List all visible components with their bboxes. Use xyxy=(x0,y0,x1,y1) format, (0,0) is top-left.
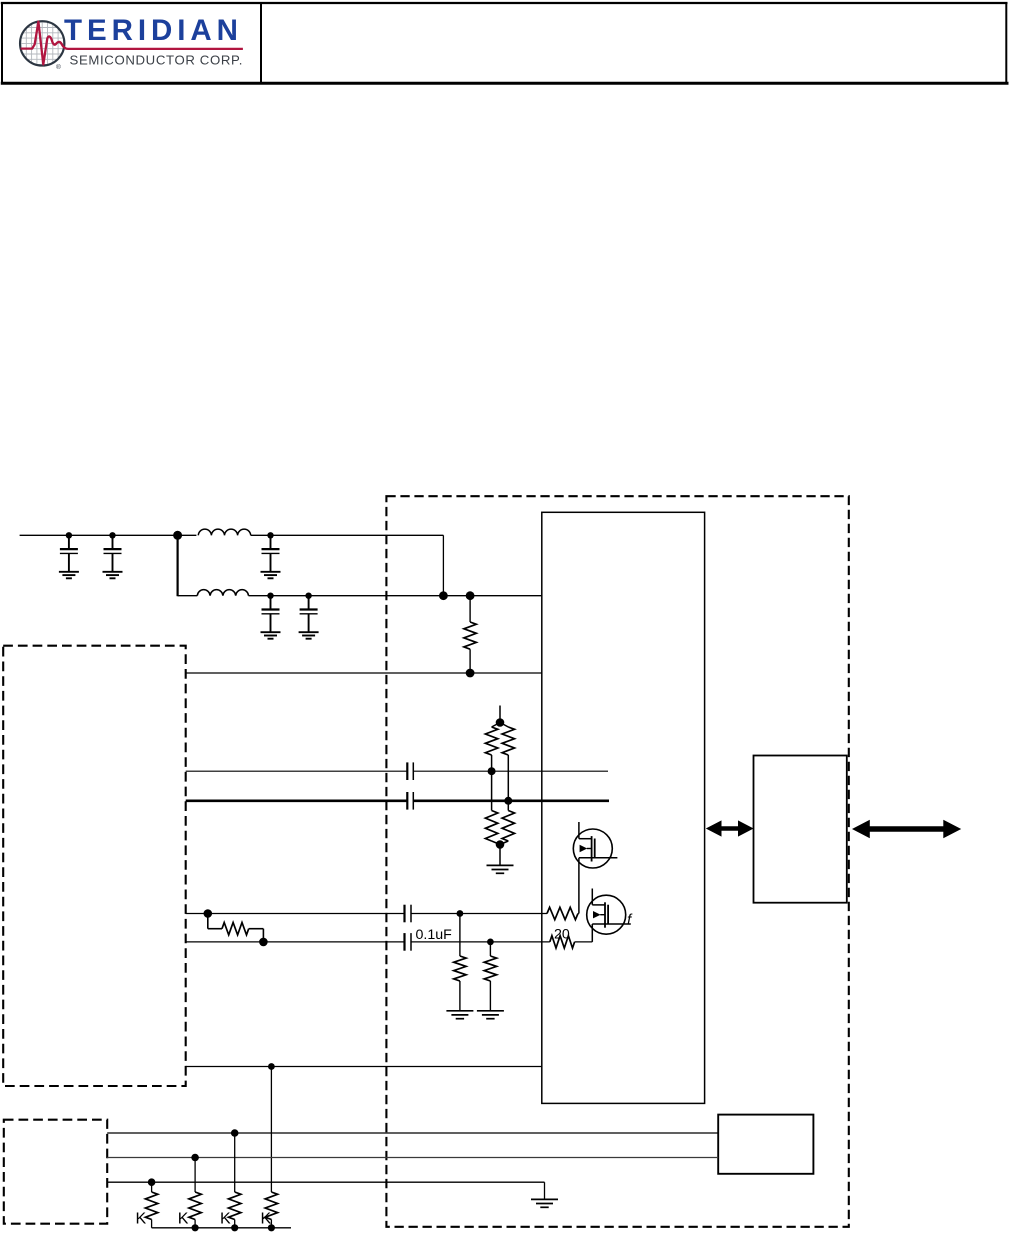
node: R3 on wire VA xyxy=(504,797,512,805)
wire: comm line 1 xyxy=(107,1132,718,1134)
dashed block: 71M6513 area xyxy=(386,496,848,1227)
stub: divider bottom to ground xyxy=(499,845,501,866)
wire: V3P3 row into IC xyxy=(249,595,542,597)
capacitor C3 xyxy=(262,532,280,572)
wire: second row to L2 xyxy=(178,595,198,597)
svg-text:f: f xyxy=(627,912,633,929)
wire VB with series capacitor C9 (0.1uF) xyxy=(186,933,550,951)
header divider xyxy=(260,2,262,83)
wire IA with series capacitor C6 xyxy=(186,762,608,780)
wire VA (bold) with series capacitor C7 xyxy=(186,792,609,810)
IC U1 body xyxy=(542,512,705,1103)
arrow: IC to EEPROM bus xyxy=(706,820,754,836)
ground of divider xyxy=(487,865,514,873)
node: C8 output xyxy=(457,910,464,917)
wire: Q1 source down to IB wire xyxy=(578,858,580,914)
resistor R8 (IB to ground) xyxy=(454,914,466,1011)
inductor L2 xyxy=(197,590,248,596)
transistor Q2 (MOSFET) xyxy=(587,895,631,934)
resistor R6 on wire IB xyxy=(547,907,578,919)
svg-text:0.1uF: 0.1uF xyxy=(416,927,453,943)
node: R2 on wire IA xyxy=(488,767,496,775)
block: bottom connector box xyxy=(718,1115,813,1174)
resistor R4 (lower-left of divider) xyxy=(485,771,500,844)
wire: Q2 rail down to VB wire xyxy=(591,924,593,942)
node: common 2 xyxy=(192,1224,199,1231)
node: R bottom junction xyxy=(466,669,475,678)
node: divider top xyxy=(496,718,505,727)
node: common 4 xyxy=(268,1224,275,1231)
ground of C1 xyxy=(59,572,79,579)
wire: resistor commons xyxy=(152,1227,291,1229)
wire: Q2 drain stub xyxy=(591,889,593,905)
svg-text:TERIDIAN: TERIDIAN xyxy=(64,14,240,47)
resistor RK2 (K) xyxy=(189,1192,201,1228)
dashed block: sensor area (left) xyxy=(3,646,186,1086)
resistor R2 (upper-left of divider) xyxy=(485,723,500,772)
wire: comm line 3 to ground xyxy=(107,1182,544,1199)
resistor RK4 (K) xyxy=(265,1192,277,1228)
wire: neutral return xyxy=(186,1066,542,1068)
wire: tap 1 drop xyxy=(151,1182,153,1192)
resistor R5 (lower-right of divider) xyxy=(500,801,515,845)
ground of R9 xyxy=(477,1011,504,1019)
node: divider bottom xyxy=(496,840,505,849)
node: pull-up tap 3 xyxy=(231,1129,239,1137)
block: EEPROM / right box xyxy=(754,756,847,903)
svg-text:K: K xyxy=(136,1211,147,1228)
ground of C2 xyxy=(103,572,123,579)
wire: tap 3 drop xyxy=(234,1133,236,1192)
ground of C5 xyxy=(299,632,319,639)
wire: VBAT row xyxy=(186,672,542,674)
wire: R10 to Q2 xyxy=(575,941,593,943)
wire: comm line 2 xyxy=(107,1157,718,1159)
wire IB with series capacitor C8 xyxy=(186,905,547,923)
capacitor C1 xyxy=(60,532,78,572)
logo circle with grid xyxy=(20,20,66,67)
node: line split xyxy=(173,531,182,540)
node: bend junction xyxy=(439,591,448,600)
dashed block: small bottom-left xyxy=(4,1120,107,1224)
node: neutral tap xyxy=(268,1063,275,1070)
wire: tap 2 drop xyxy=(194,1158,196,1193)
wire: neutral tap drop xyxy=(270,1067,272,1193)
resistor R1 (V3P3 to VBAT) xyxy=(464,596,476,673)
capacitor C2 xyxy=(104,532,122,572)
resistor R3 (upper-right of divider) xyxy=(500,723,515,801)
ground of R8 xyxy=(446,1011,473,1019)
ground of C3 xyxy=(261,572,281,579)
capacitor C4 xyxy=(262,593,280,633)
capacitor C5 xyxy=(300,593,318,633)
wire: line input xyxy=(20,534,197,536)
logo ECG waveform xyxy=(21,22,243,65)
svg-text:SEMICONDUCTOR CORP.: SEMICONDUCTOR CORP. xyxy=(70,52,244,67)
transistor Q1 (MOSFET) xyxy=(573,829,617,868)
header frame xyxy=(1,2,1009,84)
svg-text:®: ® xyxy=(56,63,61,71)
wire: after L1 xyxy=(251,534,444,536)
wire: drop to neutral row xyxy=(177,535,179,596)
wire: R6 to Q1 xyxy=(577,913,580,915)
node: shunt jog top xyxy=(204,909,213,918)
stub: divider top xyxy=(499,706,501,723)
node: shunt jog bottom xyxy=(259,938,268,947)
resistor R9 (VB to ground) xyxy=(484,942,496,1011)
node: pull-up tap 2 xyxy=(191,1154,199,1162)
arrow: external bus xyxy=(852,820,961,839)
wire: Q1 drain stub xyxy=(578,822,580,839)
svg-text:K: K xyxy=(220,1211,231,1228)
node: R top junction xyxy=(466,591,475,600)
inductor L1 xyxy=(198,529,250,535)
node: pull-up tap 1 xyxy=(148,1178,156,1186)
wire: L bend to V3P3 row xyxy=(442,535,444,595)
resistor RK3 (K) xyxy=(229,1192,241,1228)
node: common 3 xyxy=(231,1224,238,1231)
ground of comm line 3 xyxy=(531,1199,558,1207)
resistor RK1 (K) xyxy=(145,1192,157,1228)
node: C9 output xyxy=(487,939,494,946)
svg-text:20: 20 xyxy=(554,927,570,943)
ground of C4 xyxy=(261,632,281,639)
resistor R10 (20) on wire VB xyxy=(550,936,575,948)
resistor R7 (jog between IB and VB) xyxy=(208,914,264,942)
svg-text:K: K xyxy=(178,1211,189,1228)
